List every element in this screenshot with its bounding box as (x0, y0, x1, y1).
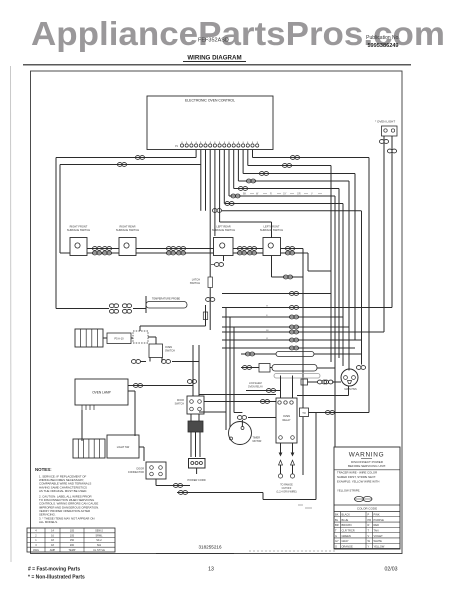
svg-text:V: V (311, 193, 313, 196)
svg-text:WHITE: WHITE (374, 539, 383, 543)
svg-text:5995386249: 5995386249 (367, 43, 398, 49)
svg-text:SURFACE SWITCH: SURFACE SWITCH (67, 228, 90, 232)
svg-text:T: T (335, 528, 337, 532)
svg-text:(1,2,4 OR 8 WIRE): (1,2,4 OR 8 WIRE) (276, 491, 296, 494)
svg-text:# = Fast-moving Parts: # = Fast-moving Parts (28, 567, 80, 573)
svg-text:LATCH: LATCH (192, 278, 200, 282)
svg-text:* = Non-Illustrated Parts: * = Non-Illustrated Parts (28, 575, 85, 581)
svg-text:P: P (368, 513, 370, 517)
svg-text:OR: OR (297, 193, 301, 196)
svg-text:PINK: PINK (374, 513, 380, 517)
svg-text:LEFT REAR: LEFT REAR (216, 225, 230, 229)
svg-text:RELAY: RELAY (282, 419, 290, 422)
svg-text:Publication No.: Publication No. (366, 35, 400, 41)
svg-text:SWITCH: SWITCH (165, 350, 175, 353)
svg-text:ALL MODELS.: ALL MODELS. (39, 520, 58, 524)
svg-text:318255216: 318255216 (199, 545, 222, 550)
svg-text:NAMED FIRST, STRIPE NEXT.: NAMED FIRST, STRIPE NEXT. (337, 475, 376, 479)
svg-text:MAIN HNS: MAIN HNS (345, 388, 358, 391)
svg-text:GREEN: GREEN (342, 534, 351, 538)
svg-text:18: 18 (51, 544, 54, 547)
svg-text:105: 105 (70, 530, 75, 533)
svg-text:TEMP: TEMP (69, 549, 76, 552)
svg-text:SURFACE SWITCH: SURFACE SWITCH (260, 228, 283, 232)
svg-text:18: 18 (51, 539, 54, 542)
svg-text:SF-2: SF-2 (96, 539, 102, 542)
svg-text:SURFACE SWITCH: SURFACE SWITCH (212, 228, 235, 232)
svg-text:2: 2 (35, 534, 37, 537)
svg-text:RIGHT REAR: RIGHT REAR (120, 225, 136, 229)
svg-text:Y: Y (368, 544, 370, 548)
svg-text:ORANGE: ORANGE (342, 544, 354, 548)
svg-text:P5 A-10: P5 A-10 (114, 337, 124, 341)
svg-text:BR: BR (335, 523, 339, 527)
svg-text:TEMPERATURE PROBE: TEMPERATURE PROBE (152, 298, 180, 301)
svg-text:R: R (368, 523, 370, 527)
svg-text:150: 150 (70, 539, 75, 542)
svg-text:GY: GY (283, 193, 287, 196)
svg-text:VIOLET: VIOLET (374, 534, 384, 538)
svg-text:BL: BL (335, 518, 339, 522)
svg-text:CLR TRCR: CLR TRCR (342, 528, 355, 532)
svg-text:AWG: AWG (33, 549, 39, 552)
svg-text:GY: GY (335, 539, 339, 543)
svg-text:WIRING DIAGRAM: WIRING DIAGRAM (187, 55, 241, 62)
svg-text:SRML: SRML (96, 534, 104, 537)
svg-text:BEFORE SERVICING UNIT.: BEFORE SERVICING UNIT. (348, 464, 386, 468)
svg-text:ELECTRONIC OVEN CONTROL: ELECTRONIC OVEN CONTROL (185, 99, 235, 103)
svg-text:16: 16 (51, 534, 54, 537)
svg-text:AMP: AMP (50, 549, 56, 552)
svg-text:SGI: SGI (97, 544, 102, 547)
svg-text:OVEN LAMP: OVEN LAMP (92, 391, 111, 395)
svg-text:P1: P1 (175, 145, 179, 148)
svg-text:GRAY: GRAY (342, 539, 349, 543)
svg-text:POWER CORD: POWER CORD (188, 478, 206, 482)
svg-text:LEFT FRONT: LEFT FRONT (264, 225, 280, 229)
svg-text:02/03: 02/03 (385, 567, 398, 573)
svg-text:LIGHT SW: LIGHT SW (117, 445, 130, 449)
svg-text:NOTES:: NOTES: (35, 467, 52, 472)
svg-text:AS THE ORIGINAL MUST BE USED.: AS THE ORIGINAL MUST BE USED. (39, 489, 87, 493)
svg-text:BROWN: BROWN (342, 523, 352, 527)
svg-text:YELLOW: YELLOW (374, 544, 385, 548)
svg-text:EXAMPLE: YELLOW WIRE WITH: EXAMPLE: YELLOW WIRE WITH (337, 480, 379, 484)
svg-text:TO: TO (302, 411, 306, 415)
svg-text:SWITCH: SWITCH (190, 281, 200, 285)
svg-text:O: O (335, 544, 337, 548)
svg-text:OVEN: OVEN (283, 415, 290, 418)
svg-text:UL STYLE: UL STYLE (93, 549, 105, 552)
svg-text:SURFACE SWITCH: SURFACE SWITCH (116, 228, 139, 232)
svg-text:3: 3 (35, 544, 37, 547)
svg-text:BK: BK (243, 193, 247, 196)
svg-text:13: 13 (208, 567, 214, 573)
svg-text:BLACK: BLACK (342, 513, 351, 517)
svg-text:TRACER WIRE - WIRE COLOR: TRACER WIRE - WIRE COLOR (337, 471, 377, 475)
svg-text:T: T (368, 528, 370, 532)
svg-text:SWITCH: SWITCH (175, 403, 185, 406)
svg-text:BK: BK (335, 513, 339, 517)
svg-text:14: 14 (51, 530, 54, 533)
svg-text:SEW-2: SEW-2 (95, 530, 103, 533)
svg-text:W: W (368, 539, 371, 543)
svg-text:PR: PR (368, 518, 372, 522)
svg-text:PURPLE: PURPLE (374, 518, 385, 522)
svg-text:OVEN RELAY: OVEN RELAY (248, 386, 264, 389)
svg-text:RIGHT FRONT: RIGHT FRONT (70, 225, 88, 229)
svg-text:R: R (270, 193, 272, 196)
svg-text:G: G (335, 534, 337, 538)
svg-text:RED: RED (374, 523, 380, 527)
svg-text:V: V (368, 534, 370, 538)
svg-text:COLOR CODE: COLOR CODE (357, 507, 377, 511)
svg-text:200: 200 (70, 544, 75, 547)
svg-text:BLUE: BLUE (342, 518, 349, 522)
svg-text:YELLOW STRIPE.: YELLOW STRIPE. (337, 489, 361, 493)
svg-text:TAN: TAN (374, 528, 379, 532)
svg-text:FEF352ASD: FEF352ASD (198, 38, 229, 44)
svg-text:CONNECTOR: CONNECTOR (128, 471, 144, 474)
svg-text:MOTOR: MOTOR (253, 440, 262, 443)
svg-text:1: 1 (35, 539, 37, 542)
svg-text:105: 105 (70, 534, 75, 537)
svg-text:WARNING: WARNING (349, 452, 385, 459)
svg-text:W: W (256, 193, 259, 196)
svg-text:4: 4 (35, 530, 37, 533)
svg-text:* OVEN LIGHT: * OVEN LIGHT (375, 120, 395, 124)
